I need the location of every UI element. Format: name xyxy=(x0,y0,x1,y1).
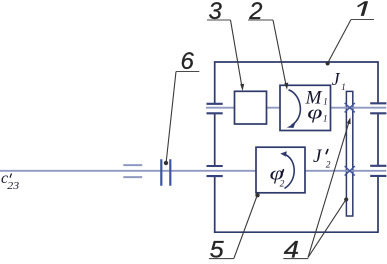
rotation arrowhead block 2 xyxy=(287,123,296,128)
frame box 1 bottom edge xyxy=(214,231,379,233)
leader 1 xyxy=(328,20,351,63)
rigid joint cross (bottom) on element 4 xyxy=(345,166,355,175)
block 3 (gear/clutch square) xyxy=(235,91,267,124)
shaft break symbol (=) on left shaft xyxy=(123,165,142,177)
frame box 1 right edge segments xyxy=(377,62,379,233)
svg-text:4: 4 xyxy=(284,236,299,263)
block 2 (motor M1) xyxy=(280,85,331,130)
wire: bottom shaft (long horizontal line from left edge through box) xyxy=(0,170,386,172)
callout 1 xyxy=(361,1,368,16)
svg-text:J: J xyxy=(332,69,341,89)
rigid joint cross (top) on element 4 xyxy=(345,103,355,112)
svg-text:2: 2 xyxy=(326,161,331,171)
frame box 1 (housing) top edge xyxy=(214,61,379,63)
rotation arc in block 2 xyxy=(289,90,301,126)
svg-text:1: 1 xyxy=(341,82,346,92)
wire: shaft through element 4 (bottom) xyxy=(344,170,356,172)
svg-text:5: 5 xyxy=(210,236,225,263)
bearing bottom-left xyxy=(207,166,223,176)
wire: shaft through element 4 (top) xyxy=(344,107,356,109)
leader 3 xyxy=(231,20,242,86)
svg-text:23: 23 xyxy=(7,181,19,192)
leader 2 xyxy=(273,20,286,85)
rotation arrowhead block 5 xyxy=(280,151,287,156)
wall element 4 (tall thin rectangle) xyxy=(346,91,352,216)
bearing top-left (wall pass-through plates) xyxy=(207,104,223,114)
wire: top shaft inside box xyxy=(206,107,386,109)
svg-text:2: 2 xyxy=(280,180,285,190)
leader 5 xyxy=(234,197,257,259)
coupling 6 (two discs on shaft) xyxy=(161,159,170,186)
svg-text:2: 2 xyxy=(248,0,262,25)
frame box 1 left edge segments xyxy=(214,62,216,233)
block 5 (inertia phi2) xyxy=(256,147,305,193)
svg-text:φ: φ xyxy=(307,103,322,124)
rotation arc in block 5 xyxy=(284,154,294,188)
bearing bottom-right xyxy=(370,166,386,176)
svg-text:3: 3 xyxy=(209,0,223,25)
leader 4a (to lower part of element 4) xyxy=(308,201,345,258)
svg-text:1: 1 xyxy=(323,115,328,125)
leader 4b (to upper joint of element 4) xyxy=(308,122,349,258)
svg-text:1: 1 xyxy=(323,96,328,106)
bearing top-right xyxy=(370,103,386,113)
leader 6 xyxy=(166,72,176,162)
